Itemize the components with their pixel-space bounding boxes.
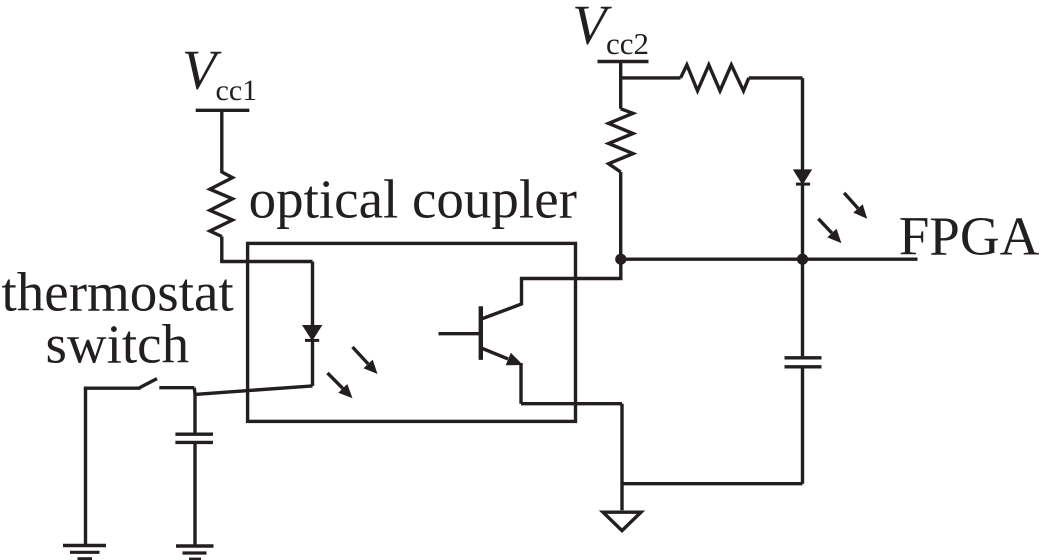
svg-text:cc1: cc1 xyxy=(216,74,258,107)
svg-text:switch: switch xyxy=(46,314,190,375)
svg-text:cc2: cc2 xyxy=(606,26,649,61)
svg-text:optical coupler: optical coupler xyxy=(249,168,577,229)
svg-text:FPGA: FPGA xyxy=(899,205,1040,266)
